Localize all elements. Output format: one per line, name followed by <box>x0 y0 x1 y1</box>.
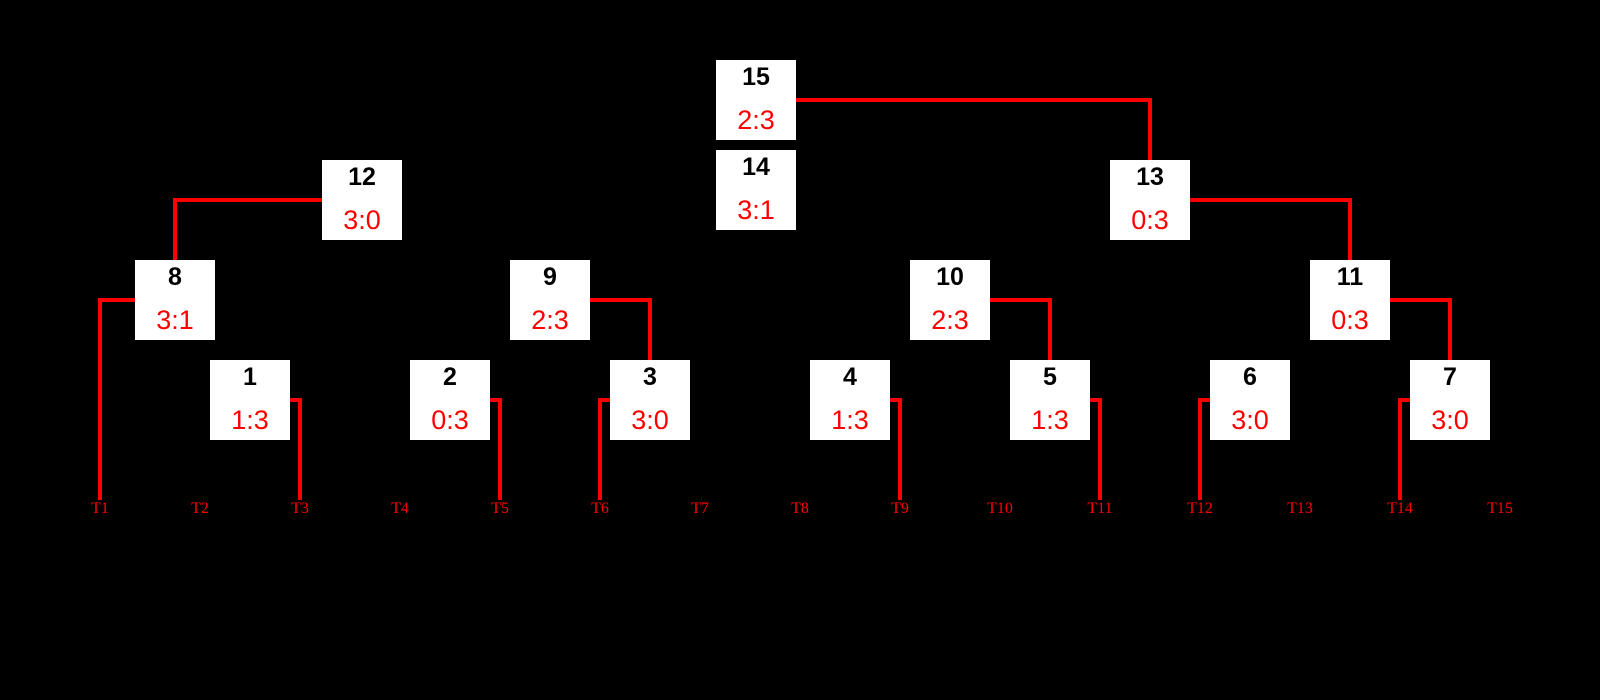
match box 1 <box>210 360 290 440</box>
wire 6 to T12 horizontal <box>1198 398 1210 402</box>
wire 13 to 11 horizontal <box>1190 198 1352 202</box>
match box 12 <box>322 160 402 240</box>
label T12 <box>1160 500 1240 518</box>
label T9 <box>860 500 940 518</box>
label T15 <box>1460 500 1540 518</box>
match box 4 <box>810 360 890 440</box>
label T13 <box>1260 500 1340 518</box>
wire 9 to 3 vertical <box>648 298 652 360</box>
label T11 <box>1060 500 1140 518</box>
match box 3 <box>610 360 690 440</box>
wire 10 to 5 horizontal <box>990 298 1052 302</box>
wire 11 to 7 vertical <box>1448 298 1452 360</box>
wire 12 to 8 vertical <box>173 198 177 260</box>
wire 3 to T6 horizontal <box>598 398 610 402</box>
match box 14 <box>716 150 796 230</box>
wire 7 to T14 vertical <box>1398 398 1402 500</box>
label T14 <box>1360 500 1440 518</box>
label T1 <box>60 500 140 518</box>
label T2 <box>160 500 240 518</box>
match box 6 <box>1210 360 1290 440</box>
wire 3 to T6 vertical <box>598 398 602 500</box>
match box 13 <box>1110 160 1190 240</box>
wire 8 to T1 vertical <box>98 298 102 500</box>
match box 10 <box>910 260 990 340</box>
label T8 <box>760 500 840 518</box>
wire 11 to 7 horizontal <box>1390 298 1452 302</box>
wire 7 to T14 horizontal <box>1398 398 1410 402</box>
wire 4 to T9 horizontal <box>890 398 902 402</box>
label T6 <box>560 500 640 518</box>
wire 2 to T5 vertical <box>498 398 502 500</box>
label T4 <box>360 500 440 518</box>
wire 12 to 8 horizontal <box>173 198 322 202</box>
wire 13 to 11 vertical <box>1348 198 1352 260</box>
match box 2 <box>410 360 490 440</box>
match box 15 <box>716 60 796 140</box>
wire 1 to T3 horizontal <box>290 398 302 402</box>
wire 2 to T5 horizontal <box>490 398 502 402</box>
match box 8 <box>135 260 215 340</box>
wire 6 to T12 vertical <box>1198 398 1202 500</box>
label T7 <box>660 500 740 518</box>
match box 7 <box>1410 360 1490 440</box>
match box 11 <box>1310 260 1390 340</box>
wire 10 to 5 vertical <box>1048 298 1052 360</box>
match box 9 <box>510 260 590 340</box>
wire 5 to T11 vertical <box>1098 398 1102 500</box>
wire 8 to T1 horizontal <box>98 298 135 302</box>
label T5 <box>460 500 540 518</box>
wire 4 to T9 vertical <box>898 398 902 500</box>
wire 1 to T3 vertical <box>298 398 302 500</box>
wire 15 to 13 vertical <box>1148 98 1152 160</box>
wire 5 to T11 horizontal <box>1090 398 1102 402</box>
match box 5 <box>1010 360 1090 440</box>
wire 9 to 3 horizontal <box>590 298 652 302</box>
wire 15 to 13 horizontal <box>796 98 1152 102</box>
label T10 <box>960 500 1040 518</box>
label T3 <box>260 500 340 518</box>
